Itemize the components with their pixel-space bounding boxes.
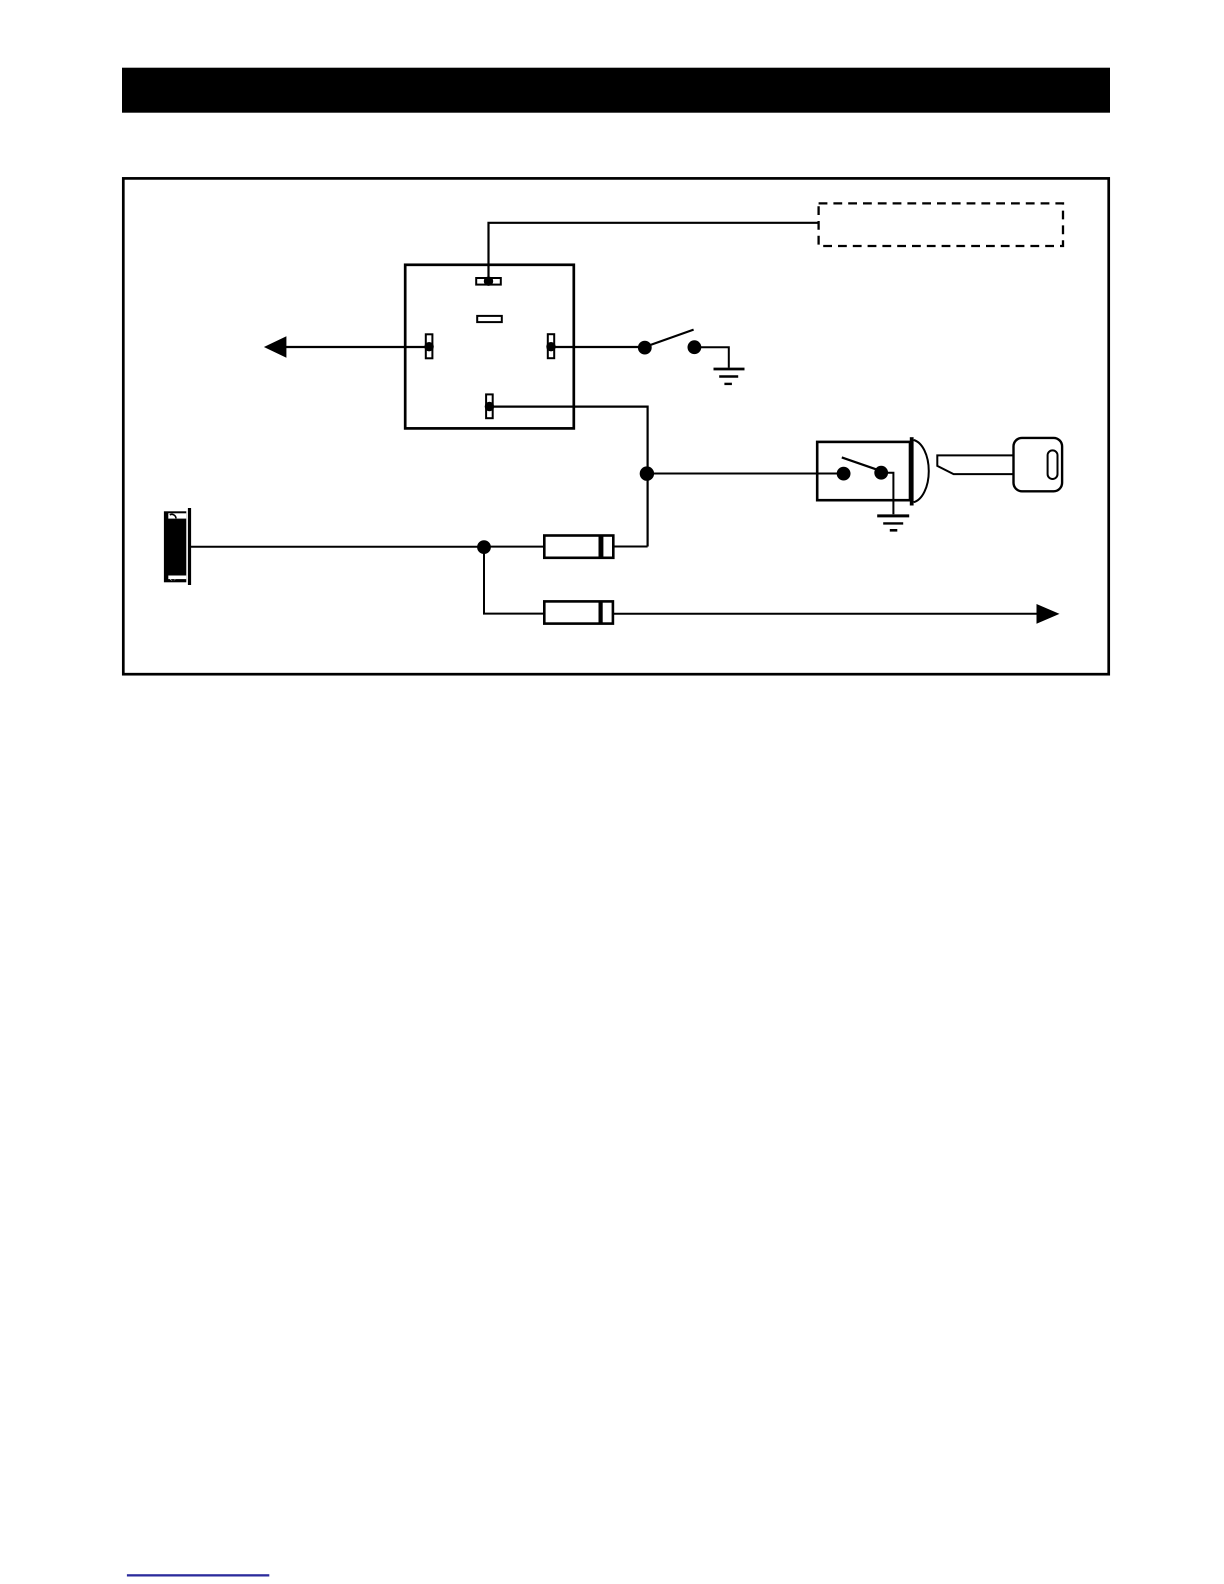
junction node A <box>477 540 491 554</box>
relay pin bottom <box>485 394 494 418</box>
switch S1 <box>638 330 701 355</box>
key blade <box>937 455 1014 474</box>
relay pin top <box>476 277 501 286</box>
wire: relay pin 87 (bottom) right and down to node B <box>489 407 647 547</box>
ignition switch contacts <box>837 457 888 480</box>
dashed box (callout) <box>819 203 1063 246</box>
output arrow (right) <box>1037 604 1060 624</box>
wire: diode D2 to output arrow (right) <box>613 613 1038 615</box>
relay pin left <box>424 334 433 358</box>
wire: relay right pin to switch S1 <box>551 346 639 348</box>
wire: relay pin 86 (top) to dashed callout <box>489 223 819 278</box>
footer link underline <box>127 1574 269 1576</box>
wire: switch S1 to ground <box>701 347 729 368</box>
splice connector <box>164 508 191 585</box>
key head <box>1014 438 1063 491</box>
ignition switch body <box>817 437 929 505</box>
wire: node A to diode D1 <box>490 546 544 548</box>
wire: ignition switch to ground <box>888 473 894 515</box>
relay coil tab (middle) <box>477 316 502 322</box>
wire: node B to ignition switch <box>648 473 838 475</box>
wire: splice to node A <box>191 546 478 548</box>
relay K1 body <box>405 265 574 429</box>
wire: diode D1 to node B branch <box>613 546 647 548</box>
junction node B <box>640 466 654 480</box>
diode D1 <box>544 536 613 558</box>
wire: relay left pin to output arrow <box>280 346 429 348</box>
ground (S1) <box>714 369 745 384</box>
header bar <box>122 68 1110 113</box>
output arrow (left) <box>264 336 287 358</box>
ground (ignition switch) <box>877 516 909 530</box>
wire: node A down to diode D2 <box>484 547 544 614</box>
diode D2 <box>544 601 613 623</box>
relay pin right <box>546 334 555 358</box>
